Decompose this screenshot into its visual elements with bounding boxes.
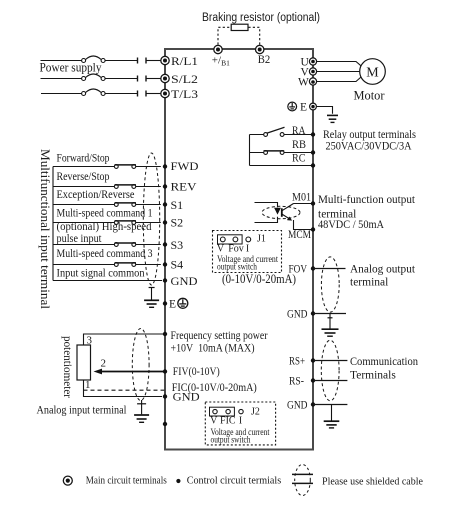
- optocoupler phototransistor Q1: [282, 204, 294, 221]
- svg-text:potentiometer: potentiometer: [61, 336, 73, 398]
- svg-text:S2: S2: [171, 216, 184, 230]
- jumper J2 pin I: [239, 409, 243, 413]
- terminal M01: [292, 192, 315, 206]
- svg-text:GND: GND: [173, 389, 200, 403]
- svg-text:Multi-function output: Multi-function output: [318, 194, 416, 206]
- wire +10V to pot pin3: [84, 334, 166, 345]
- svg-text:Multi-speed command 1: Multi-speed command 1: [57, 207, 153, 219]
- ground (analog output shield): [322, 314, 339, 337]
- switch SW-S3: [53, 243, 161, 247]
- svg-text:Motor: Motor: [354, 89, 386, 103]
- legend: shielded cable symbol: [292, 465, 313, 496]
- terminal E (left): [163, 299, 176, 311]
- svg-text:V: V: [217, 244, 225, 255]
- terminal +10V: [163, 332, 167, 336]
- svg-text:Relay output terminals: Relay output terminals: [323, 129, 416, 141]
- wire MCM: [294, 220, 314, 230]
- svg-text:B2: B2: [258, 52, 271, 66]
- shielded cable ellipse (communication): [321, 340, 339, 401]
- svg-text:S/L2: S/L2: [171, 72, 198, 86]
- wire E to ground: [316, 107, 332, 114]
- inverter main box: [165, 49, 313, 450]
- wire W to motor: [317, 76, 363, 82]
- terminal RS-: [289, 376, 315, 388]
- svg-text:Terminals: Terminals: [350, 370, 396, 382]
- pot wiper arrow (pin 2): [94, 358, 166, 375]
- ground (comm shield): [324, 405, 340, 428]
- svg-text:FWD: FWD: [171, 159, 199, 173]
- terminal +/B1: [212, 45, 230, 67]
- wire GND comm: [313, 404, 347, 406]
- svg-text:J2: J2: [251, 407, 260, 418]
- svg-text:Main circuit terminals: Main circuit terminals: [86, 475, 167, 487]
- ground (motor E): [327, 115, 338, 122]
- svg-text:(0-10V/0-20mA): (0-10V/0-20mA): [222, 272, 296, 286]
- terminal RB: [292, 139, 315, 155]
- jumper J1 dashed enclosure: [213, 231, 282, 273]
- legend: main circuit terminal symbol: [63, 476, 72, 485]
- svg-text:48VDC / 50mA: 48VDC / 50mA: [318, 219, 385, 231]
- svg-text:Reverse/Stop: Reverse/Stop: [57, 171, 110, 183]
- svg-text:Communication: Communication: [350, 356, 418, 368]
- terminal S1: [163, 198, 183, 212]
- shielded cable ellipse (inputs): [143, 153, 159, 285]
- wire RS-: [313, 380, 347, 382]
- switch SW-S2: [53, 221, 161, 225]
- input table left bus: [52, 167, 54, 281]
- wire GND analog out: [313, 313, 346, 315]
- optocoupler LED input leads: [255, 203, 278, 223]
- terminal FOV: [289, 263, 316, 275]
- svg-text:Multi-speed command 3: Multi-speed command 3: [57, 248, 153, 260]
- svg-text:RS-: RS-: [289, 376, 304, 388]
- svg-text:J1: J1: [257, 234, 266, 245]
- relay contact RA (normally open): [250, 127, 314, 136]
- terminal GND (input): [163, 274, 198, 288]
- jumper J2 box: [205, 402, 275, 446]
- svg-text:FIV(0-10V): FIV(0-10V): [173, 366, 220, 378]
- svg-text:E: E: [300, 102, 307, 114]
- jumper J1 box: [213, 231, 282, 273]
- optocoupler U1 package: [262, 206, 300, 218]
- svg-text:W: W: [298, 76, 309, 88]
- terminal S4: [163, 257, 183, 271]
- ground (analog input shield): [134, 400, 149, 422]
- svg-text:GND: GND: [171, 274, 198, 288]
- svg-text:T/L3: T/L3: [171, 87, 198, 101]
- svg-text:M: M: [366, 65, 379, 80]
- svg-text:MCM: MCM: [288, 229, 311, 241]
- wire FOV: [313, 268, 346, 270]
- wire pot pin1 to GND: [84, 380, 163, 397]
- svg-text:Analog input terminal: Analog input terminal: [37, 403, 128, 417]
- jumper J1 pin I: [246, 237, 251, 242]
- terminal S2: [163, 216, 183, 230]
- svg-text:S3: S3: [171, 238, 184, 252]
- terminal FIV: [163, 369, 167, 373]
- svg-text:Exception/Reverse: Exception/Reverse: [57, 189, 135, 201]
- terminal W: [298, 76, 317, 88]
- terminal RA: [292, 125, 315, 137]
- svg-text:+10V 10mA (MAX): +10V 10mA (MAX): [171, 342, 255, 354]
- switch SW-S1: [53, 203, 161, 207]
- terminal S/L2: [161, 72, 198, 86]
- wire RS+: [313, 360, 347, 362]
- relay contact RB (normally closed): [264, 151, 285, 155]
- wire GND input row: [53, 280, 162, 282]
- breaker S1b on S/L2 line: [41, 74, 161, 82]
- potentiometer RP: [77, 345, 91, 380]
- svg-text:GND: GND: [287, 309, 308, 321]
- breaker S1c on T/L3 line: [41, 89, 161, 97]
- svg-text:250VAC/30VDC/3A: 250VAC/30VDC/3A: [326, 141, 413, 153]
- svg-text:FOV: FOV: [289, 263, 308, 275]
- motor M: [354, 59, 386, 103]
- wire U to motor: [317, 62, 363, 68]
- svg-text:RB: RB: [292, 139, 306, 151]
- svg-text:terminal: terminal: [350, 276, 388, 288]
- svg-text:RA: RA: [292, 125, 306, 137]
- svg-text:1: 1: [85, 379, 91, 391]
- jumper J2 dashed enclosure: [205, 402, 275, 445]
- terminal MCM: [288, 227, 315, 241]
- svg-text:Analog output: Analog output: [350, 263, 416, 275]
- terminal T/L3: [161, 87, 198, 101]
- braking resistor BR (dashed leads): [218, 24, 260, 49]
- switch SW-REV: [53, 185, 161, 189]
- svg-text:output switch: output switch: [217, 263, 257, 273]
- svg-text:Braking resistor (optional): Braking resistor (optional): [202, 12, 320, 24]
- svg-text:Input signal common: Input signal common: [57, 268, 145, 280]
- protective earth symbol (left E): [178, 298, 188, 308]
- svg-text:output switch: output switch: [211, 436, 251, 446]
- svg-text:RS+: RS+: [289, 356, 305, 368]
- terminal S3: [163, 238, 183, 252]
- terminal R/L1: [161, 54, 198, 68]
- terminal B2: [256, 45, 271, 66]
- wire M01: [294, 203, 314, 205]
- svg-text:S4: S4: [171, 257, 184, 271]
- svg-text:pulse input: pulse input: [57, 233, 103, 245]
- terminal V: [301, 66, 317, 78]
- shielded cable ellipse (analog input): [132, 329, 149, 401]
- jumper J1 shunt on pins V-Fov: [218, 235, 243, 244]
- svg-text:2: 2: [101, 358, 107, 370]
- terminal E (right): [300, 102, 316, 114]
- svg-text:Power supply: Power supply: [40, 61, 103, 75]
- jumper J2 shunt on pins V-FIC: [210, 407, 235, 416]
- svg-text:GND: GND: [287, 399, 308, 411]
- legend: control circuit terminal symbol: [176, 479, 180, 483]
- switch SW-S4: [53, 263, 161, 267]
- switch SW-FWD: [53, 165, 161, 169]
- relay common bus wire: [250, 135, 314, 166]
- breaker S1a on R/L1 line: [41, 56, 161, 64]
- svg-text:(optional) High-speed: (optional) High-speed: [57, 221, 152, 233]
- svg-text:E: E: [169, 299, 176, 311]
- svg-text:Multifunctional input terminal: Multifunctional input terminal: [38, 149, 52, 310]
- shielded cable ellipse (analog output): [321, 257, 339, 312]
- svg-text:M01: M01: [292, 192, 311, 204]
- svg-text:I: I: [246, 244, 249, 255]
- svg-text:FIC: FIC: [220, 415, 236, 426]
- svg-text:Forward/Stop: Forward/Stop: [57, 152, 110, 164]
- svg-text:Fov: Fov: [228, 244, 244, 255]
- terminal GND (comm): [287, 399, 315, 411]
- terminal RC: [292, 153, 315, 168]
- svg-text:Please use shielded cable: Please use shielded cable: [322, 475, 423, 487]
- svg-text:REV: REV: [171, 180, 197, 194]
- optocoupler LED D1: [274, 208, 281, 215]
- svg-text:V: V: [210, 415, 218, 426]
- protective earth symbol (right E): [288, 102, 297, 111]
- wire V to motor: [317, 71, 362, 73]
- terminal U: [301, 56, 317, 68]
- terminal GND (analog in): [163, 394, 167, 398]
- svg-text:RC: RC: [292, 153, 306, 165]
- svg-text:Frequency setting power: Frequency setting power: [171, 330, 268, 342]
- wire FIC (dashed optional): [84, 389, 166, 391]
- terminal RS+: [289, 356, 315, 368]
- svg-text:Control circuit termials: Control circuit termials: [187, 475, 282, 487]
- svg-text:R/L1: R/L1: [171, 54, 198, 68]
- svg-text:S1: S1: [171, 198, 184, 212]
- svg-text:I: I: [239, 415, 242, 426]
- junction dot (left edge): [163, 422, 167, 426]
- ground (input shield): [144, 288, 159, 308]
- terminal REV: [163, 180, 197, 194]
- terminal FWD: [163, 159, 199, 173]
- terminal GND (analog out): [287, 309, 315, 321]
